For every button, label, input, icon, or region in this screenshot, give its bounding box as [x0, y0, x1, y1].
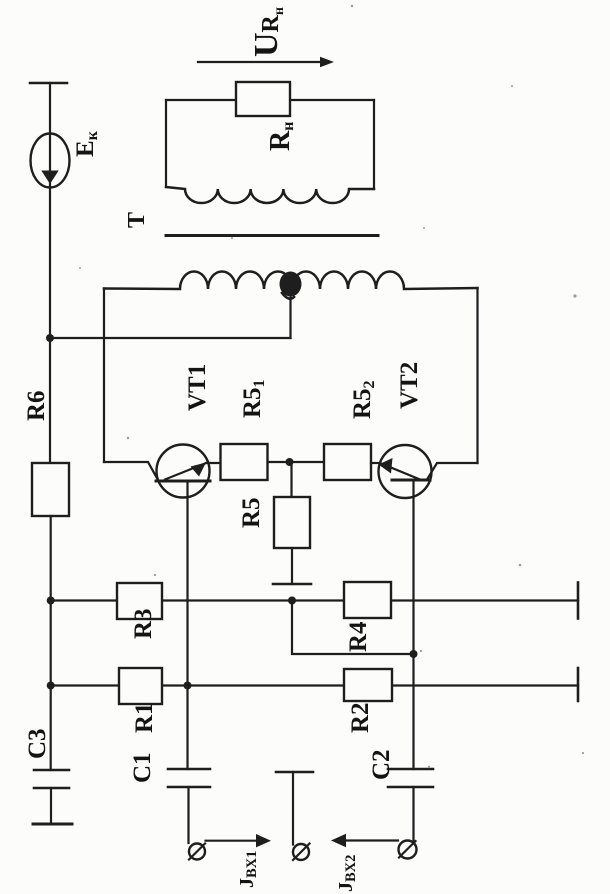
transistor VT1	[157, 445, 210, 498]
svg-text:C3: C3	[24, 728, 51, 759]
wire VT2 base lead	[412, 480, 414, 769]
bottom bar terminal	[33, 823, 72, 826]
wire R5 top lead	[290, 462, 292, 497]
wire VT1 base lead	[186, 481, 188, 769]
resistor R5_2 box	[324, 444, 371, 480]
resistor R2 box	[344, 669, 392, 701]
transformer secondary winding	[166, 187, 374, 203]
node rail2 left junction	[47, 682, 55, 690]
node rail1 left junction	[47, 597, 55, 605]
svg-text:C1: C1	[129, 752, 156, 783]
resistor R3 box	[117, 583, 162, 619]
wire below C3	[50, 788, 52, 822]
wire center tap vertical	[289, 290, 291, 338]
wire secondary top	[166, 99, 374, 101]
wire left supply rail vertical	[49, 83, 51, 463]
resistor R1 box	[119, 668, 162, 704]
wire node to R5_2	[290, 461, 325, 463]
svg-text:Rн: Rн	[265, 122, 297, 151]
capacitor C2	[388, 768, 433, 771]
svg-text:R4: R4	[345, 621, 372, 652]
arrow U_BX2	[346, 839, 398, 841]
wire C2 to input terminal	[412, 787, 414, 842]
svg-text:R52: R52	[349, 380, 378, 419]
node rail1 center junction	[288, 597, 296, 605]
wire center tap feed horizontal	[50, 337, 291, 339]
terminal common	[293, 844, 309, 860]
capacitor C3	[34, 769, 69, 772]
svg-text:R6: R6	[23, 390, 50, 421]
resistor Rn load box	[236, 82, 290, 116]
wire secondary right vertical	[373, 100, 375, 189]
node VT2 base junction	[410, 650, 418, 658]
svg-text:R3: R3	[130, 608, 157, 639]
svg-text:JBX1: JBX1	[236, 851, 260, 888]
resistor R5_1 box	[221, 444, 268, 480]
svg-text:R1: R1	[131, 702, 158, 733]
wire primary right end down to VT2 collector	[476, 288, 478, 463]
terminal input 2	[399, 841, 417, 859]
svg-text:Eк: Eк	[72, 130, 101, 157]
wire secondary left vertical	[165, 100, 167, 187]
resistor R4 box	[344, 582, 391, 618]
wire C1 to input terminal	[187, 787, 189, 843]
terminal input 1	[189, 844, 205, 860]
wire R5_1 to node	[268, 461, 289, 463]
node junction at supply / center-tap feed	[46, 334, 54, 342]
wire supply rail below R6	[50, 516, 52, 770]
node VT1 base junction on rail2	[184, 682, 192, 690]
resistor R5 box	[274, 497, 310, 548]
rail2 end bar	[577, 668, 580, 701]
transformer core line	[166, 234, 378, 237]
transformer T primary winding	[104, 272, 478, 290]
source Ek	[31, 134, 70, 188]
wire step from rail1 to VT2 base	[292, 601, 414, 655]
wire R5 bottom lead	[291, 548, 293, 584]
rail1 end bar	[577, 583, 580, 619]
arrow U_Rn output voltage	[198, 61, 321, 63]
svg-text:URн: URн	[248, 7, 287, 57]
svg-text:JBX2: JBX2	[335, 855, 359, 892]
scan specks	[79, 5, 584, 768]
node emitter junction	[286, 458, 294, 466]
svg-text:T: T	[124, 212, 150, 228]
wire bias rail 2	[51, 684, 578, 686]
arrow U_BX1	[206, 840, 259, 842]
svg-text:R51: R51	[239, 379, 268, 418]
svg-text:R5: R5	[238, 497, 265, 528]
wire middle terminal	[292, 772, 294, 845]
svg-text:VT2: VT2	[396, 362, 423, 409]
ground bar under R5	[273, 583, 311, 586]
middle common terminal bar	[276, 771, 313, 774]
wire primary left end down to VT1 collector	[103, 289, 105, 463]
wire bias rail 1	[51, 599, 578, 601]
svg-text:VT1: VT1	[184, 364, 211, 411]
capacitor C1	[168, 768, 210, 771]
transformer center tap blob	[280, 272, 302, 297]
transistor VT2	[379, 445, 432, 498]
svg-text:R2: R2	[347, 702, 374, 733]
svg-text:C2: C2	[368, 749, 395, 780]
resistor R6 box	[32, 463, 69, 516]
wire supply top bar terminal	[30, 82, 67, 85]
